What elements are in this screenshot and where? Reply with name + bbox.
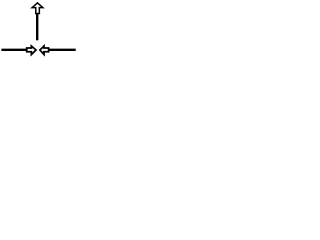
wire: vertical line (36, 13, 38, 40)
merge-arrows diagram (0, 0, 79, 63)
hollow arrow pointing right (left side) (27, 46, 36, 55)
hollow arrow pointing left (right side) (40, 46, 49, 55)
hollow arrow pointing up (top, larger) (32, 3, 43, 14)
wire: right horizontal line (49, 49, 75, 51)
wire: left horizontal line (1, 49, 26, 51)
